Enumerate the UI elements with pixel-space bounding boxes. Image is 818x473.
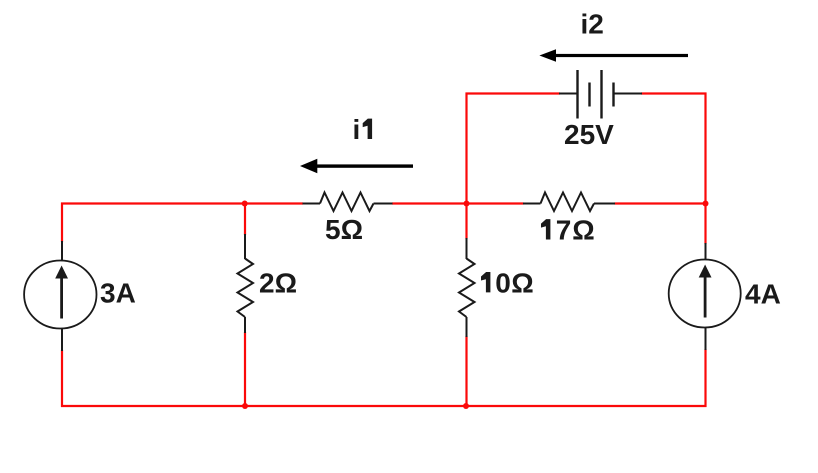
svg-text:i: i (353, 114, 361, 145)
svg-text:5Ω: 5Ω (325, 214, 363, 245)
svg-text:0Ω: 0Ω (495, 267, 534, 298)
svg-text:2Ω: 2Ω (259, 267, 297, 298)
svg-text:i2: i2 (581, 9, 604, 40)
svg-text:3A: 3A (100, 278, 136, 309)
svg-text:4A: 4A (745, 279, 781, 310)
svg-text:7Ω: 7Ω (556, 215, 596, 246)
svg-text:25V: 25V (564, 119, 614, 150)
